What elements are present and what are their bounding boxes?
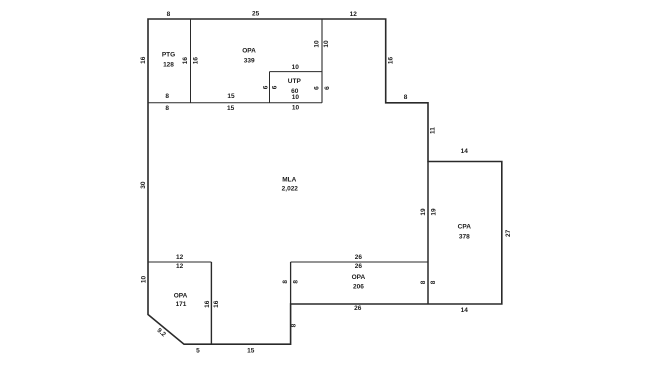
wire: interior wall PTG/OPA divider xyxy=(190,19,192,103)
room PTG label xyxy=(162,52,175,69)
svg-text:171: 171 xyxy=(176,301,187,308)
svg-text:8: 8 xyxy=(420,280,427,284)
wire: OPA171 right wall xyxy=(210,262,212,344)
svg-text:12: 12 xyxy=(350,11,358,18)
svg-text:6: 6 xyxy=(324,86,331,90)
svg-text:8: 8 xyxy=(293,280,300,284)
svg-text:26: 26 xyxy=(355,263,363,270)
svg-text:16: 16 xyxy=(204,300,211,308)
svg-text:16: 16 xyxy=(193,57,200,65)
room UTP label xyxy=(288,78,302,95)
svg-text:27: 27 xyxy=(505,229,512,237)
wire: MLA/CPA shared wall xyxy=(427,162,429,305)
svg-text:UTP: UTP xyxy=(288,78,302,85)
room MLA label xyxy=(282,176,299,192)
svg-text:OPA: OPA xyxy=(174,293,188,300)
svg-text:339: 339 xyxy=(244,58,255,65)
svg-text:8: 8 xyxy=(404,94,408,101)
svg-text:206: 206 xyxy=(353,284,364,291)
wire: UTP top wall xyxy=(270,71,323,73)
svg-text:12: 12 xyxy=(176,254,184,261)
svg-text:8: 8 xyxy=(430,280,437,284)
svg-text:OPA: OPA xyxy=(352,274,366,281)
wire: interior wall OPA right / MLA xyxy=(321,19,323,103)
svg-text:19: 19 xyxy=(420,208,427,216)
svg-text:30: 30 xyxy=(140,181,147,189)
svg-text:16: 16 xyxy=(182,57,189,65)
svg-text:CPA: CPA xyxy=(458,224,472,231)
exterior perimeter wall xyxy=(148,19,502,344)
svg-text:8: 8 xyxy=(290,323,297,327)
svg-text:16: 16 xyxy=(388,57,395,65)
svg-text:378: 378 xyxy=(459,233,470,240)
svg-text:15: 15 xyxy=(227,93,235,100)
svg-text:10: 10 xyxy=(292,105,300,112)
svg-text:OPA: OPA xyxy=(242,47,256,54)
svg-text:8: 8 xyxy=(165,105,169,112)
wire: OPA171 top wall xyxy=(148,261,211,263)
svg-text:10: 10 xyxy=(292,94,300,101)
svg-text:10: 10 xyxy=(292,64,300,71)
svg-text:14: 14 xyxy=(461,307,469,314)
room OPA 171 label xyxy=(174,293,188,309)
svg-text:12: 12 xyxy=(176,263,184,270)
svg-text:5: 5 xyxy=(196,348,200,355)
svg-text:19: 19 xyxy=(430,208,437,216)
svg-text:8: 8 xyxy=(165,93,169,100)
svg-text:25: 25 xyxy=(252,11,260,18)
svg-text:PTG: PTG xyxy=(162,52,175,59)
wire: OPA206 top wall xyxy=(291,261,428,263)
svg-text:6: 6 xyxy=(263,85,270,89)
svg-text:16: 16 xyxy=(140,56,147,64)
room CPA label xyxy=(458,224,472,241)
svg-text:10: 10 xyxy=(323,40,330,48)
svg-text:2,022: 2,022 xyxy=(282,186,299,193)
svg-text:8: 8 xyxy=(167,11,171,18)
svg-text:11: 11 xyxy=(430,127,437,134)
svg-text:16: 16 xyxy=(213,300,220,308)
svg-text:8: 8 xyxy=(282,280,289,284)
svg-text:128: 128 xyxy=(163,62,174,69)
room OPA 339 label xyxy=(242,47,256,64)
svg-text:26: 26 xyxy=(354,305,362,312)
svg-text:26: 26 xyxy=(355,254,363,261)
wire: UTP left wall xyxy=(269,72,271,103)
wire: OPA206 left wall xyxy=(290,262,292,304)
svg-text:15: 15 xyxy=(247,348,255,355)
svg-text:6: 6 xyxy=(271,85,278,89)
room OPA 206 label xyxy=(352,274,366,290)
svg-text:15: 15 xyxy=(227,105,235,112)
svg-text:6: 6 xyxy=(313,86,320,90)
svg-text:10: 10 xyxy=(314,40,321,48)
svg-text:14: 14 xyxy=(461,148,469,155)
wire: wall between upper rooms and MLA xyxy=(148,102,322,104)
svg-text:10: 10 xyxy=(141,276,148,284)
svg-text:MLA: MLA xyxy=(282,176,296,183)
